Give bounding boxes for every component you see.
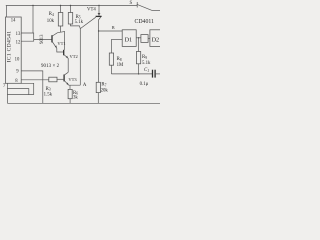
svg-text:VT3: VT3	[68, 77, 77, 82]
ground bus bottom	[7, 102, 160, 104]
wire R8 bottom	[110, 65, 112, 74]
gate D1 box	[122, 30, 136, 47]
svg-text:CD4011: CD4011	[135, 19, 155, 25]
wire switch to right edge	[152, 9, 160, 11]
transistor VT3 bar	[63, 75, 65, 82]
wire D1 second input	[111, 38, 122, 40]
wire R6 bottom stub	[69, 99, 71, 104]
svg-text:S: S	[130, 1, 133, 6]
svg-text:VT2: VT2	[70, 54, 78, 59]
svg-text:IC1 CD4541: IC1 CD4541	[6, 31, 12, 63]
svg-text:1M: 1M	[117, 63, 124, 68]
resistor R7 box	[96, 82, 100, 92]
resistor R9 box	[136, 52, 140, 64]
wire R9 top tap	[138, 38, 140, 52]
gate D2 box	[150, 30, 161, 47]
svg-text:1.5k: 1.5k	[44, 93, 53, 98]
wire R6 top stub	[69, 85, 71, 89]
VT2 emitter with arrow	[64, 55, 68, 73]
junction dots	[32, 5, 33, 6]
wire pin 7 down	[6, 83, 8, 103]
svg-text:D2: D2	[152, 36, 160, 43]
wire pin 13	[21, 33, 34, 41]
VT1 emitter with arrow	[53, 42, 64, 52]
VT4 collector down to node B	[99, 17, 101, 31]
VT3 emitter with arrow	[64, 81, 80, 85]
resistor R3 box	[49, 77, 57, 82]
svg-text:D1: D1	[125, 36, 133, 43]
svg-text:R3: R3	[46, 87, 51, 92]
svg-text:R8: R8	[117, 57, 122, 62]
wire R4 bottom to collector node	[60, 26, 62, 32]
wire pin 9 down	[21, 71, 43, 103]
coupling square	[141, 35, 148, 43]
transistor VT2 bar	[63, 50, 65, 56]
wire oscillator RC net	[111, 73, 152, 75]
wire D1 to coupling square	[136, 37, 141, 39]
wire pin 14 lead	[6, 6, 8, 18]
svg-text:R5: R5	[76, 15, 81, 20]
svg-text:B: B	[112, 25, 115, 30]
svg-text:VT4: VT4	[87, 8, 96, 13]
VT4 base diagonal to R5 node	[80, 17, 96, 28]
wire collector node to VT2	[61, 32, 65, 50]
wire node B to D1	[99, 30, 123, 32]
svg-text:R4: R4	[49, 12, 54, 17]
switch S blade	[136, 2, 138, 8]
svg-text:12: 12	[16, 40, 21, 45]
wire bus to pins 13/12	[32, 6, 34, 34]
wire C1 to right edge	[155, 73, 160, 75]
capacitor C1 plates	[152, 70, 154, 78]
wire middle L-path	[7, 89, 28, 95]
resistor R4 box	[58, 13, 63, 27]
wire R5 bottom to node	[71, 24, 81, 29]
wire R7 from node B down	[98, 31, 100, 82]
resistor R6 box	[68, 89, 72, 98]
wire R4 top stub	[60, 6, 62, 13]
svg-text:A: A	[83, 83, 87, 88]
VT3 collector	[65, 72, 69, 75]
wire lower joining path	[7, 94, 33, 96]
wire box bottom L-path	[21, 83, 34, 94]
svg-text:3k: 3k	[73, 95, 78, 100]
resistor R5 box	[68, 13, 72, 25]
svg-text:9013 × 2: 9013 × 2	[41, 64, 60, 69]
wire top supply bus	[6, 5, 137, 7]
wire square to D2	[148, 37, 150, 39]
svg-text:R7: R7	[101, 83, 106, 88]
wire R3 to VT3 base	[57, 78, 64, 80]
svg-text:10k: 10k	[47, 19, 55, 24]
wire R9 bottom	[138, 64, 140, 74]
wire VT1 base from pins 13/12 node	[34, 38, 52, 40]
svg-text:10: 10	[15, 58, 20, 63]
svg-text:5.1k: 5.1k	[75, 20, 84, 25]
VT1 collector	[52, 32, 60, 36]
svg-text:9013: 9013	[40, 34, 45, 44]
wire R7 bottom stub	[97, 93, 99, 104]
wire VT4 base node vertical	[79, 29, 81, 86]
svg-text:R9: R9	[142, 55, 147, 60]
svg-text:VT1: VT1	[57, 41, 65, 46]
IC IC1 CD4541 box	[6, 17, 22, 83]
svg-text:14: 14	[11, 18, 16, 23]
svg-text:C1: C1	[144, 68, 149, 73]
wire R8 top lead	[110, 39, 112, 53]
wire pin 8 to R3	[21, 79, 49, 81]
svg-text:5.1k: 5.1k	[142, 61, 151, 66]
svg-text:13: 13	[16, 32, 21, 37]
transistor VT1 bar	[51, 35, 53, 42]
VT4 bar	[96, 15, 102, 17]
wire R5 top stub	[70, 6, 72, 13]
resistor R8 box	[109, 53, 113, 65]
transistor VT4 emitter lead	[98, 6, 100, 16]
svg-text:20k: 20k	[101, 89, 109, 94]
svg-text:0.1μ: 0.1μ	[140, 82, 149, 87]
